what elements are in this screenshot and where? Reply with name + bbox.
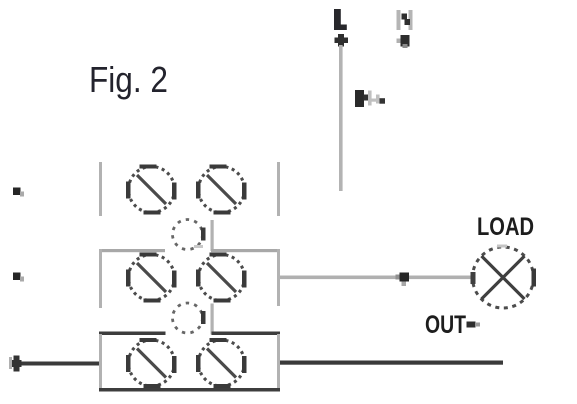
OUT arrow [467, 322, 481, 328]
screw terminal row2-right [196, 253, 247, 303]
terminal block row2 right edge [277, 249, 280, 306]
cable bushing circle 2 (dashed) [173, 303, 206, 333]
terminal block row2 top edge left part [99, 249, 165, 252]
node N terminal cross [397, 35, 410, 48]
wire row3 to left edge [16, 362, 99, 366]
connector stub 2 [211, 304, 214, 335]
left margin bullet B [13, 273, 24, 282]
faint dash near bushing 1 [194, 245, 203, 248]
connector stub 1 [211, 220, 214, 251]
cable bushing circle 1 (dashed) [173, 220, 206, 250]
wire from L down to timer [339, 45, 343, 191]
screw terminal row2-left [126, 253, 177, 303]
screw terminal row1-right [196, 165, 247, 215]
terminal block row3 right edge [277, 334, 280, 388]
wire row3 to right [280, 361, 503, 365]
lamp symbol [471, 245, 537, 309]
label L (line terminal) [334, 9, 347, 30]
terminal block row3 bottom edge [99, 388, 280, 392]
screw terminal row3-right [196, 338, 247, 388]
wire from row2 to lamp [280, 276, 472, 280]
terminal block row2 top edge right part [211, 249, 280, 252]
label IN arrow [355, 90, 385, 107]
junction node on lamp wire [396, 273, 410, 287]
label N (neutral terminal) [397, 10, 413, 30]
terminal block row1 right edge [277, 162, 280, 216]
terminal block row3 top edge right part [212, 332, 281, 336]
terminal block row2 left edge [99, 249, 102, 308]
node L terminal cross [335, 34, 349, 47]
svg-text:Fig. 2: Fig. 2 [89, 59, 168, 100]
left margin bullet A [13, 188, 24, 197]
screw terminal row1-left [126, 165, 177, 215]
wire end cross left [9, 356, 22, 372]
svg-text:LOAD: LOAD [477, 213, 534, 241]
terminal block row3 left edge [99, 334, 102, 388]
svg-text:OUT: OUT [425, 311, 466, 339]
terminal block row1 left edge [99, 162, 102, 216]
terminal block row3 top edge left part [99, 332, 166, 336]
screw terminal row3-left [126, 338, 177, 388]
